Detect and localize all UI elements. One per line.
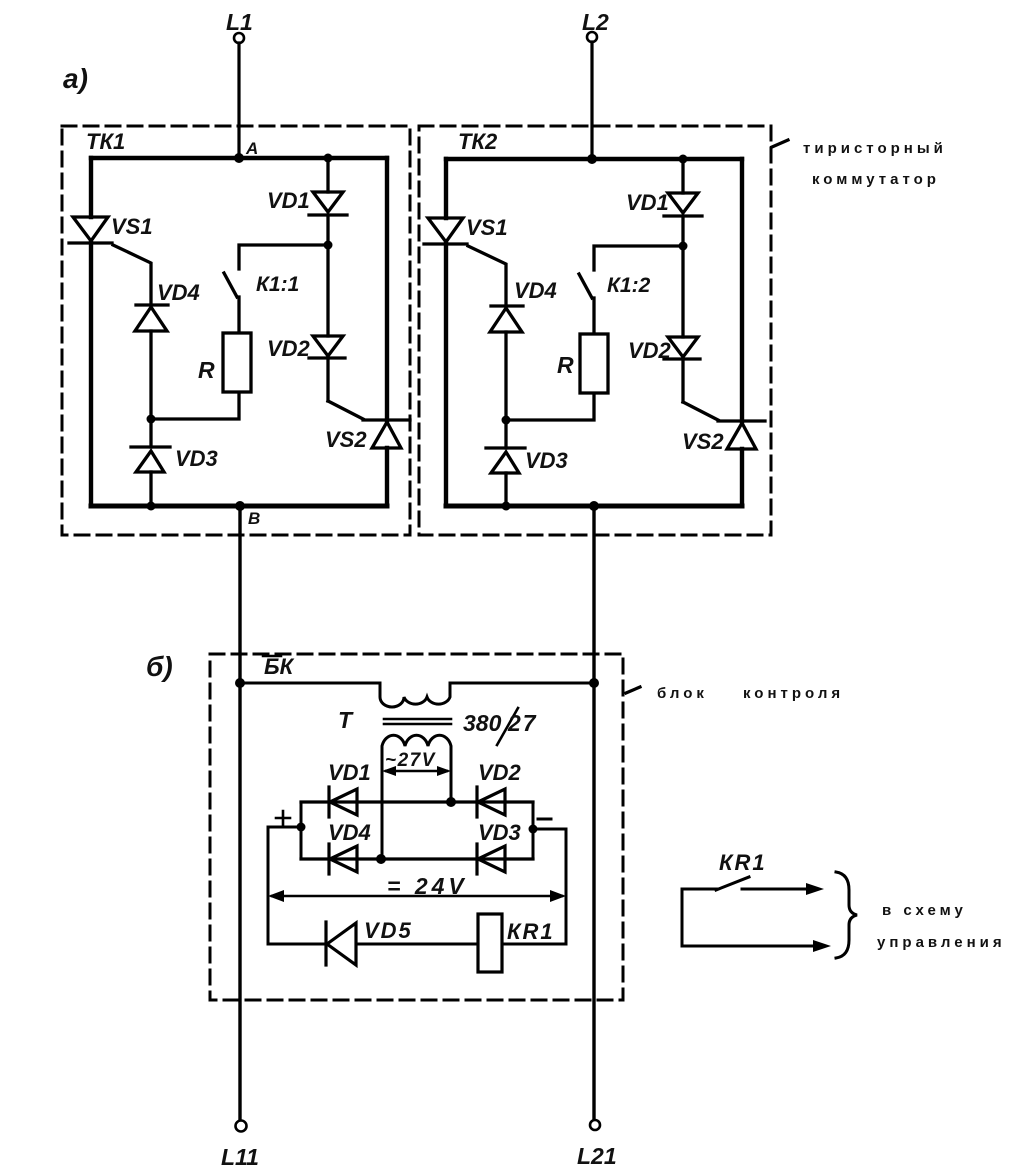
wire: contact to R (TK2)	[592, 298, 595, 334]
svg-text:= 24V: = 24V	[387, 873, 468, 899]
wire: TK1 bottom bus	[91, 504, 387, 509]
diode VD4	[136, 303, 168, 306]
wire: TK2 bottom bus	[446, 504, 742, 509]
svg-text:VD3: VD3	[175, 446, 218, 471]
diode VD1	[326, 158, 329, 192]
diode VD4 (TK2)	[491, 304, 523, 307]
resistor R	[223, 333, 251, 392]
svg-text:L21: L21	[577, 1143, 617, 1169]
svg-text:380: 380	[463, 710, 502, 736]
diode VD5	[268, 943, 326, 946]
wire: plus lead	[268, 827, 301, 944]
svg-text:VD2: VD2	[628, 338, 672, 363]
svg-text:VD2: VD2	[267, 336, 311, 361]
svg-text:27: 27	[507, 710, 538, 736]
node: secondary to top row	[446, 797, 456, 807]
svg-text:ТК1: ТК1	[86, 129, 125, 154]
svg-text:тиристорный: тиристорный	[803, 140, 947, 157]
svg-text:VS1: VS1	[466, 215, 508, 240]
arrow ~27V span	[386, 770, 447, 772]
svg-text:а): а)	[63, 63, 88, 94]
bridge bottom row	[301, 857, 533, 860]
TK1 dashed enclosure	[62, 126, 410, 535]
transformer T primary	[240, 683, 594, 707]
wire: TK1 left rail lower	[89, 243, 93, 506]
svg-text:К1:2: К1:2	[607, 274, 651, 297]
TK2 dashed enclosure	[419, 126, 771, 535]
diode VD2	[326, 245, 329, 336]
svg-text:L1: L1	[226, 9, 253, 35]
svg-text:в схему: в схему	[882, 902, 967, 919]
node: secondary to bottom row	[376, 854, 386, 864]
svg-text:VD3: VD3	[478, 820, 521, 845]
wire: TK1 top bus	[91, 156, 387, 160]
arrow = 24V	[272, 895, 562, 898]
node: VD1 bottom junction (TK2)	[679, 242, 688, 251]
node: plus takeoff	[297, 823, 306, 832]
KR1 output contact	[682, 889, 825, 946]
wire L1 to node A	[237, 43, 240, 158]
annotation: tick to TK2	[772, 140, 788, 147]
node: TK2 bottom	[589, 501, 599, 511]
diode VD2 (TK2)	[681, 246, 684, 337]
node A	[234, 153, 244, 163]
svg-text:VD1: VD1	[267, 188, 310, 213]
diode VD3	[131, 445, 170, 448]
svg-text:VD4: VD4	[328, 820, 371, 845]
wire: junction to R bottom (TK2)	[506, 393, 594, 420]
svg-text:А: А	[245, 139, 258, 158]
wire L2 down	[590, 42, 593, 159]
wire: TK1 left rail upper	[89, 158, 93, 217]
resistor R (TK2)	[580, 334, 608, 393]
svg-text:б): б)	[146, 651, 173, 682]
node: junction R / VD4-VD3 (TK2)	[502, 416, 511, 425]
wire: VD2 to VS2 gate (TK2)	[683, 402, 718, 420]
node B	[235, 501, 245, 511]
relay coil KR1	[478, 914, 502, 972]
wire: TK2 top bus	[446, 157, 742, 161]
node: minus takeoff	[529, 825, 538, 834]
bridge left link	[300, 802, 303, 859]
node: VD3 bottom junction	[147, 502, 156, 511]
svg-text:R: R	[557, 352, 574, 378]
wire: junction to contact K1:1	[239, 245, 328, 269]
wire: TK2 right rail	[740, 159, 744, 421]
node: BK right junction	[589, 678, 599, 688]
svg-text:VD1: VD1	[626, 190, 669, 215]
label minus	[538, 818, 551, 821]
svg-text:VD4: VD4	[514, 278, 557, 303]
svg-text:L11: L11	[221, 1144, 259, 1170]
wire: contact to R	[237, 297, 240, 333]
svg-text:Т: Т	[338, 707, 354, 733]
diode VD3 (TK2)	[486, 446, 525, 449]
svg-text:коммутатор: коммутатор	[812, 171, 940, 188]
wire: junction to contact K1:2	[594, 246, 683, 270]
bridge diode VD2	[475, 787, 478, 817]
thyristor VS1	[73, 217, 108, 241]
BK dashed enclosure	[210, 654, 623, 1000]
bridge diode VD1	[327, 787, 330, 817]
wire: right rail TK2 to L21	[592, 506, 595, 1120]
svg-text:КR1: КR1	[507, 919, 555, 944]
wire: left rail B to L11	[238, 506, 241, 1120]
svg-text:VD3: VD3	[525, 448, 568, 473]
bridge right link	[532, 802, 535, 859]
svg-text:БК: БК	[264, 654, 295, 679]
transformer T secondary	[382, 735, 451, 771]
wire: VD4 to VD3 (TK2)	[504, 332, 507, 448]
svg-text:VD1: VD1	[328, 760, 371, 785]
svg-text:L2: L2	[582, 9, 609, 35]
svg-text:VD2: VD2	[478, 760, 522, 785]
diode VD1 (TK2)	[681, 159, 684, 193]
svg-text:управления: управления	[877, 934, 1006, 951]
annotation: tick to BK	[626, 687, 640, 693]
svg-text:блок: блок	[657, 685, 708, 702]
label +	[276, 811, 290, 825]
node: VD1 top	[324, 154, 333, 163]
terminal L11	[236, 1121, 247, 1132]
wire: TK1 right rail	[385, 158, 389, 420]
arrow to control bottom	[813, 940, 831, 952]
wire: secondary left lead to bottom bridge row	[381, 771, 384, 859]
node: BK left junction	[235, 678, 245, 688]
bridge diode VD3	[475, 844, 478, 874]
wire: VD2 to VS2 gate	[328, 401, 363, 419]
svg-text:VD4: VD4	[157, 280, 200, 305]
svg-text:КR1: КR1	[719, 850, 767, 875]
svg-text:контроля: контроля	[743, 685, 844, 702]
svg-text:ТК2: ТК2	[458, 129, 498, 154]
node: VD1 top (TK2)	[679, 155, 688, 164]
transformer core	[384, 718, 451, 721]
svg-text:К1:1: К1:1	[256, 273, 299, 296]
thyristor VS1 (TK2)	[428, 218, 463, 242]
contact K1:1	[224, 273, 237, 297]
wire: TK2 left rail upper	[444, 159, 448, 218]
svg-text:VD5: VD5	[364, 918, 413, 943]
node: VD1 bottom junction	[324, 241, 333, 250]
wire: minus lead	[533, 829, 566, 944]
thyristor VS2	[363, 418, 410, 421]
arrow to control top	[742, 888, 818, 891]
terminal L21	[590, 1120, 600, 1130]
svg-text:R: R	[198, 357, 215, 383]
wire: VD3 to bottom bus	[149, 472, 152, 506]
node: VD3 bottom junction (TK2)	[502, 502, 511, 511]
svg-text:VS2: VS2	[682, 429, 724, 454]
wire: VD3 to bottom bus (TK2)	[504, 473, 507, 506]
wire: VS1 gate to VD4	[113, 245, 151, 305]
node: junction R / VD4-VD3	[147, 415, 156, 424]
wire: VS1 gate to VD4 (TK2)	[468, 246, 506, 306]
curly brace	[836, 872, 857, 958]
svg-text:VS1: VS1	[111, 214, 153, 239]
node: TK2 top	[587, 154, 597, 164]
contact blade KR1	[716, 877, 749, 890]
wire: secondary right lead to top bridge row	[450, 771, 453, 802]
thyristor VS2 (TK2)	[718, 419, 765, 422]
bridge diode VD4	[327, 844, 330, 874]
wire: TK2 left rail lower	[444, 244, 448, 506]
wire: VD4 to VD3	[149, 331, 152, 447]
contact K1:2	[579, 274, 592, 298]
svg-text:VS2: VS2	[325, 427, 367, 452]
bridge top row	[301, 800, 533, 803]
svg-text:В: В	[248, 509, 260, 528]
wire: junction to R bottom	[151, 392, 239, 419]
